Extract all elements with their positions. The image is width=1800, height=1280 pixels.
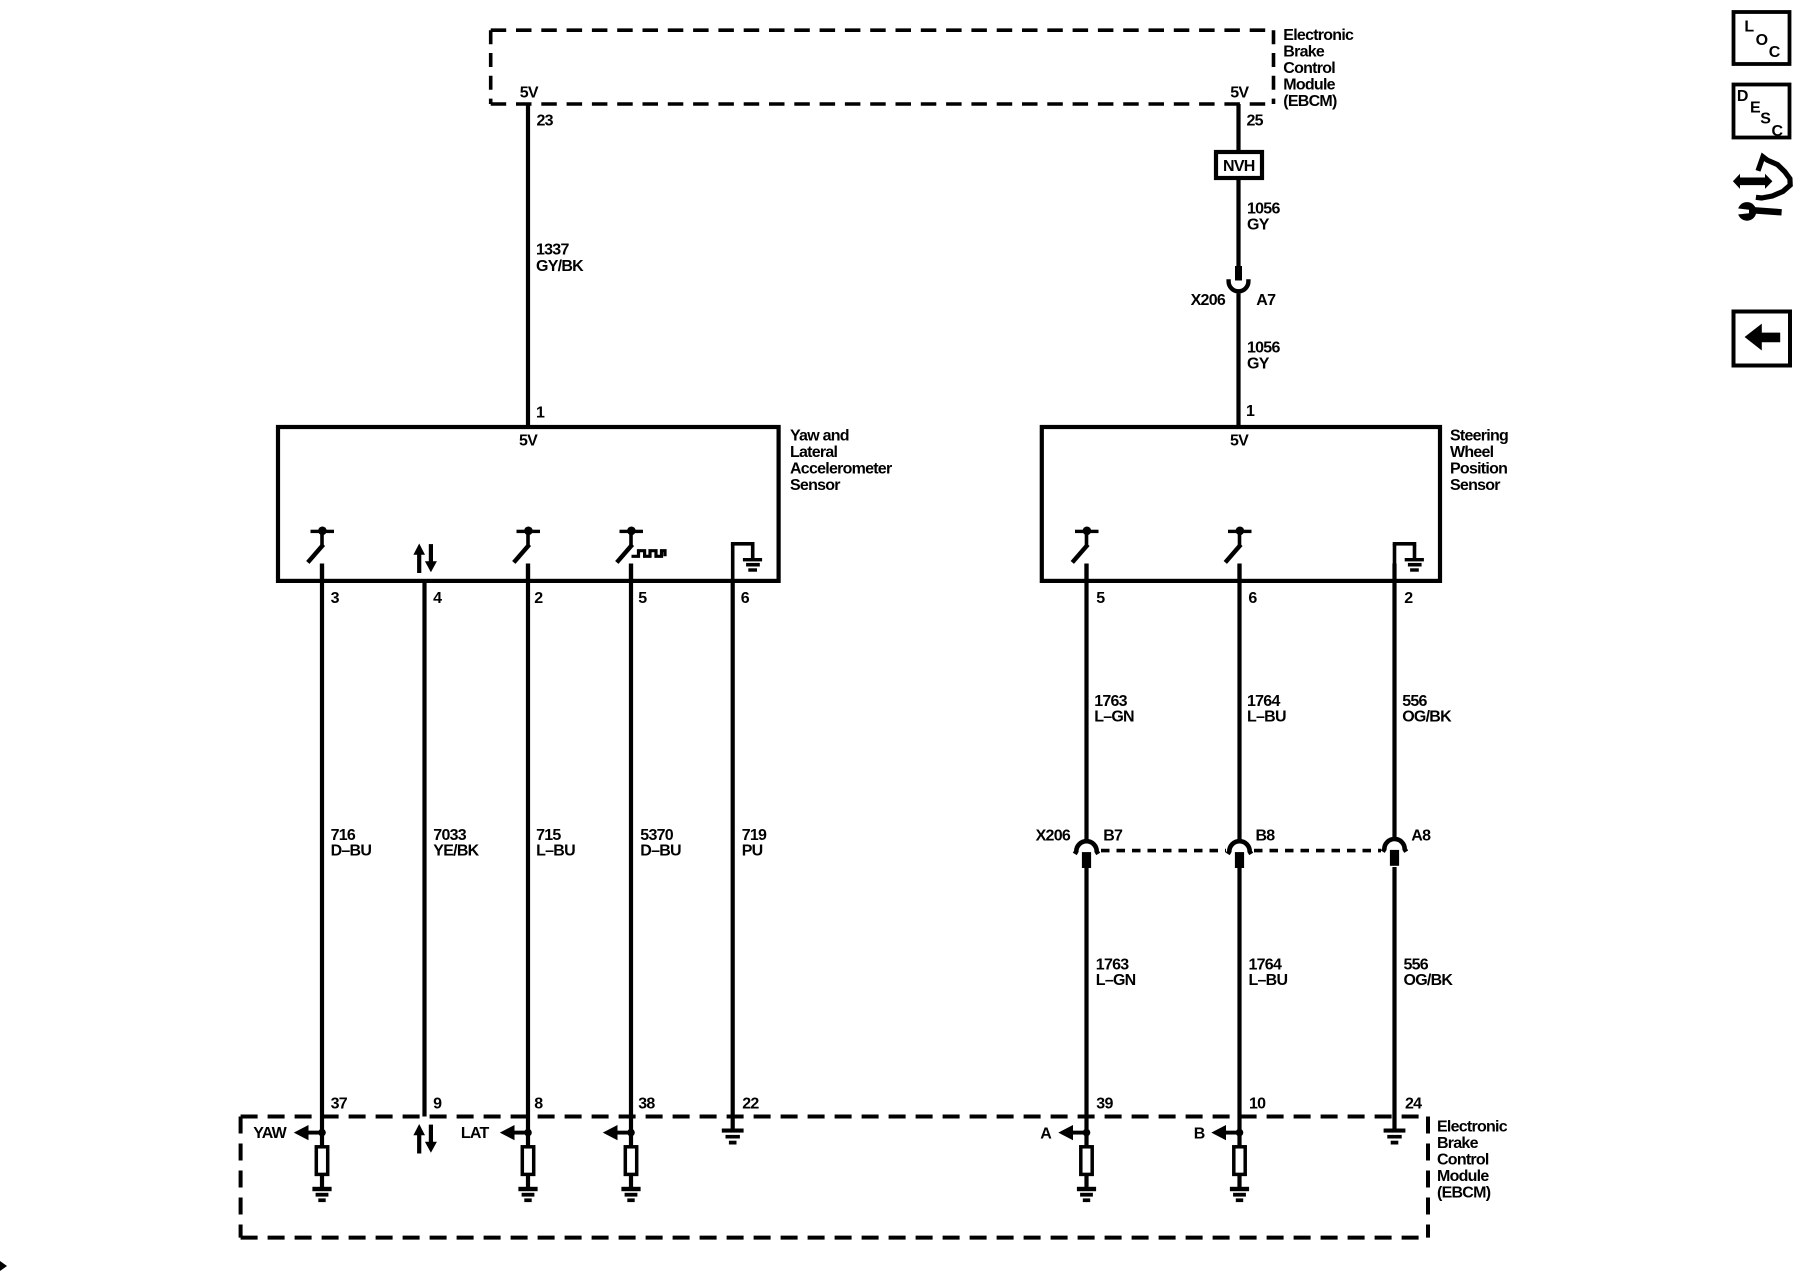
svg-text:C: C — [1769, 44, 1781, 61]
svg-text:OG/BK: OG/BK — [1404, 972, 1454, 989]
wire label 1337 GY/BK — [536, 242, 584, 276]
dashed connector link B8-A8 — [1254, 849, 1381, 853]
connector X206 pin B8 — [1228, 841, 1251, 868]
wire resistor to ground (pin 38) — [629, 1173, 633, 1188]
svg-text:GY: GY — [1247, 355, 1270, 372]
ground symbol inside accelerometer (pin 6) — [731, 542, 762, 581]
wire 715 accelerometer pin 2 to EBCM pin 8 — [526, 564, 530, 1147]
tap arrow YAW — [294, 1125, 326, 1140]
DESC navigation box — [1734, 85, 1790, 140]
contact element pin 2 — [514, 527, 540, 583]
svg-text:GY/BK: GY/BK — [536, 258, 584, 275]
svg-text:X206: X206 — [1036, 828, 1071, 845]
EBCM bottom module label — [1437, 1118, 1508, 1201]
contact element pin 5 — [617, 527, 643, 583]
svg-text:B7: B7 — [1103, 828, 1123, 845]
svg-text:1763: 1763 — [1094, 693, 1127, 710]
svg-text:39: 39 — [1096, 1095, 1113, 1112]
diagnostic arrows and wrench icon — [1733, 157, 1790, 221]
svg-text:OG/BK: OG/BK — [1402, 709, 1452, 726]
svg-text:1337: 1337 — [536, 242, 569, 259]
wire label 719 PU — [742, 827, 767, 860]
wire resistor to ground (B) — [1237, 1173, 1241, 1188]
svg-text:5: 5 — [1096, 590, 1105, 607]
svg-text:Module: Module — [1283, 77, 1335, 94]
resistor (B pull) — [1234, 1147, 1245, 1175]
svg-text:C: C — [1772, 123, 1784, 140]
wire label 1056 GY (upper) — [1247, 200, 1280, 233]
svg-text:Wheel: Wheel — [1450, 444, 1494, 461]
svg-text:NVH: NVH — [1223, 158, 1255, 175]
NVH box — [1216, 152, 1262, 178]
svg-text:A8: A8 — [1411, 828, 1431, 845]
svg-text:38: 38 — [638, 1095, 655, 1112]
svg-text:A: A — [1040, 1125, 1052, 1142]
svg-text:GY: GY — [1247, 216, 1270, 233]
svg-text:8: 8 — [534, 1095, 543, 1112]
svg-text:556: 556 — [1402, 693, 1427, 710]
accelerometer sensor label — [790, 428, 892, 495]
svg-text:Accelerometer: Accelerometer — [790, 461, 892, 478]
ground symbol inside steering sensor (pin 2) — [1393, 542, 1424, 581]
contact element pin 5 (steering) — [1072, 527, 1098, 583]
wire label 1056 GY (lower) — [1247, 339, 1280, 372]
svg-text:L–BU: L–BU — [1247, 709, 1286, 726]
svg-text:5370: 5370 — [640, 827, 673, 844]
wire label 715 L-BU — [536, 827, 575, 860]
resistor (A pull) — [1081, 1147, 1092, 1175]
contact element pin 3 — [308, 527, 334, 583]
svg-text:6: 6 — [1248, 590, 1257, 607]
wire 556 steering pin 2 to connector A8 — [1392, 564, 1396, 841]
wire label 1763 L-GN (upper) — [1094, 693, 1134, 726]
svg-text:D–BU: D–BU — [640, 842, 681, 859]
svg-text:5V: 5V — [519, 432, 538, 449]
ground (pin 38) — [621, 1187, 640, 1202]
svg-text:5V: 5V — [1230, 432, 1249, 449]
svg-text:Module: Module — [1437, 1168, 1489, 1185]
svg-text:Control: Control — [1437, 1151, 1489, 1168]
up/down arrows inside accelerometer — [413, 544, 437, 574]
EBCM top module box — [491, 30, 1274, 104]
svg-text:7033: 7033 — [433, 827, 466, 844]
up/down arrows (pin 9) — [413, 1124, 437, 1154]
wire label 556 OG/BK (lower) — [1404, 956, 1454, 989]
back arrow navigation box — [1734, 312, 1791, 366]
svg-text:37: 37 — [331, 1095, 348, 1112]
wire 719 accelerometer pin 6 to EBCM pin 22 — [731, 581, 735, 1129]
svg-text:2: 2 — [1404, 590, 1413, 607]
svg-text:YE/BK: YE/BK — [433, 842, 479, 859]
svg-text:24: 24 — [1405, 1095, 1422, 1112]
svg-text:Lateral: Lateral — [790, 444, 838, 461]
svg-text:23: 23 — [537, 113, 554, 130]
svg-text:B: B — [1194, 1125, 1205, 1142]
ground (YAW) — [312, 1187, 331, 1202]
contact element pin 6 (steering) — [1225, 527, 1251, 583]
wire label 1763 L-GN (lower) — [1096, 956, 1136, 989]
steering sensor label — [1450, 428, 1508, 495]
svg-text:Electronic: Electronic — [1437, 1118, 1508, 1135]
wire label 1764 L-BU (upper) — [1247, 693, 1286, 726]
svg-text:719: 719 — [742, 827, 767, 844]
steering wheel position sensor box — [1042, 427, 1440, 581]
wire 1056 from NVH to connector X206 A7 — [1236, 180, 1240, 280]
EBCM top module label — [1283, 27, 1354, 110]
wire label 5370 D-BU — [640, 827, 681, 860]
connector X206 pin A8 — [1383, 839, 1406, 866]
tap arrow LAT — [500, 1125, 532, 1140]
tap arrow (pin 38) — [603, 1125, 635, 1140]
svg-text:5V: 5V — [520, 85, 539, 102]
svg-text:LAT: LAT — [461, 1125, 490, 1142]
tap arrow A — [1058, 1125, 1090, 1140]
wire label 1764 L-BU (lower) — [1249, 956, 1288, 989]
wire label 716 D-BU — [331, 827, 372, 860]
svg-text:Sensor: Sensor — [1450, 477, 1500, 494]
svg-text:B8: B8 — [1256, 828, 1276, 845]
EBCM bottom module box — [241, 1117, 1428, 1238]
svg-text:YAW: YAW — [253, 1125, 287, 1142]
wire 1337 from EBCM pin 23 to accelerometer pin 1 — [526, 104, 530, 426]
svg-text:Position: Position — [1450, 461, 1507, 478]
svg-text:1056: 1056 — [1247, 200, 1280, 217]
svg-text:D: D — [1737, 88, 1748, 105]
wire 7033 accelerometer pin 4 to EBCM pin 9 — [422, 581, 426, 1117]
LOC navigation box — [1734, 12, 1790, 64]
tap arrow B — [1211, 1125, 1243, 1140]
svg-text:A7: A7 — [1256, 292, 1276, 309]
square wave signal symbol — [632, 551, 666, 557]
page corner mark — [0, 1261, 7, 1271]
svg-text:L–BU: L–BU — [536, 842, 575, 859]
svg-text:Yaw and: Yaw and — [790, 428, 849, 445]
wire 1764 connector B8 to EBCM pin 10 — [1237, 867, 1241, 1146]
svg-text:5: 5 — [638, 590, 647, 607]
svg-text:3: 3 — [331, 590, 340, 607]
svg-text:L–BU: L–BU — [1249, 972, 1288, 989]
yaw and lateral accelerometer sensor box — [278, 427, 779, 581]
wire 556 connector A8 to EBCM pin 24 — [1392, 867, 1396, 1129]
svg-text:9: 9 — [433, 1095, 442, 1112]
wire 1056 from connector to steering sensor pin 1 — [1236, 294, 1240, 426]
svg-text:D–BU: D–BU — [331, 842, 372, 859]
wire 716 accelerometer pin 3 to EBCM pin 37 — [320, 564, 324, 1147]
wire label 556 OG/BK (upper) — [1402, 693, 1452, 726]
wire resistor to ground (LAT) — [526, 1173, 530, 1188]
wire resistor to ground (YAW) — [320, 1173, 324, 1188]
svg-text:(EBCM): (EBCM) — [1437, 1184, 1491, 1201]
svg-text:PU: PU — [742, 842, 763, 859]
svg-text:556: 556 — [1404, 956, 1429, 973]
svg-text:Brake: Brake — [1437, 1135, 1479, 1152]
svg-text:1: 1 — [536, 405, 545, 422]
wire resistor to ground (A) — [1084, 1173, 1088, 1188]
connector X206 pin A7 — [1229, 266, 1249, 291]
svg-text:Control: Control — [1283, 60, 1335, 77]
wire label 7033 YE/BK — [433, 827, 479, 860]
svg-text:25: 25 — [1247, 113, 1264, 130]
svg-text:10: 10 — [1249, 1095, 1266, 1112]
svg-text:2: 2 — [534, 590, 543, 607]
svg-text:716: 716 — [331, 827, 356, 844]
svg-text:S: S — [1760, 111, 1771, 128]
dashed connector link B7-B8 — [1101, 849, 1226, 853]
wire 1763 steering pin 5 to connector B7 — [1084, 564, 1088, 841]
svg-text:1764: 1764 — [1249, 956, 1282, 973]
ground (pin 24) — [1384, 1129, 1406, 1145]
svg-text:1: 1 — [1246, 403, 1255, 420]
svg-text:1056: 1056 — [1247, 339, 1280, 356]
svg-text:22: 22 — [742, 1095, 759, 1112]
svg-text:715: 715 — [536, 827, 561, 844]
wire 1764 steering pin 6 to connector B8 — [1237, 564, 1241, 841]
svg-text:1763: 1763 — [1096, 956, 1129, 973]
svg-text:L: L — [1744, 19, 1754, 36]
ground (B) — [1230, 1187, 1249, 1202]
svg-text:Steering: Steering — [1450, 428, 1508, 445]
svg-text:L–GN: L–GN — [1094, 709, 1134, 726]
resistor (LAT pull) — [522, 1147, 533, 1175]
resistor (YAW pull) — [316, 1147, 327, 1175]
wire 1763 connector B7 to EBCM pin 39 — [1084, 867, 1088, 1146]
svg-text:X206: X206 — [1191, 292, 1226, 309]
svg-text:Brake: Brake — [1283, 44, 1325, 61]
ground (pin 22) — [722, 1129, 744, 1145]
svg-text:(EBCM): (EBCM) — [1283, 93, 1337, 110]
svg-text:Sensor: Sensor — [790, 477, 840, 494]
wire EBCM pin 25 to NVH — [1236, 104, 1240, 151]
svg-text:4: 4 — [433, 590, 442, 607]
resistor (pin 38 pull) — [625, 1147, 636, 1175]
svg-text:5V: 5V — [1230, 85, 1249, 102]
svg-text:O: O — [1756, 32, 1768, 49]
svg-text:Electronic: Electronic — [1283, 27, 1354, 44]
svg-text:L–GN: L–GN — [1096, 972, 1136, 989]
svg-text:6: 6 — [741, 590, 750, 607]
connector X206 pin B7 — [1075, 841, 1098, 868]
svg-text:1764: 1764 — [1247, 693, 1280, 710]
ground (A) — [1077, 1187, 1096, 1202]
ground (LAT) — [518, 1187, 537, 1202]
wire 5370 accelerometer pin 5 to EBCM pin 38 — [629, 564, 633, 1147]
